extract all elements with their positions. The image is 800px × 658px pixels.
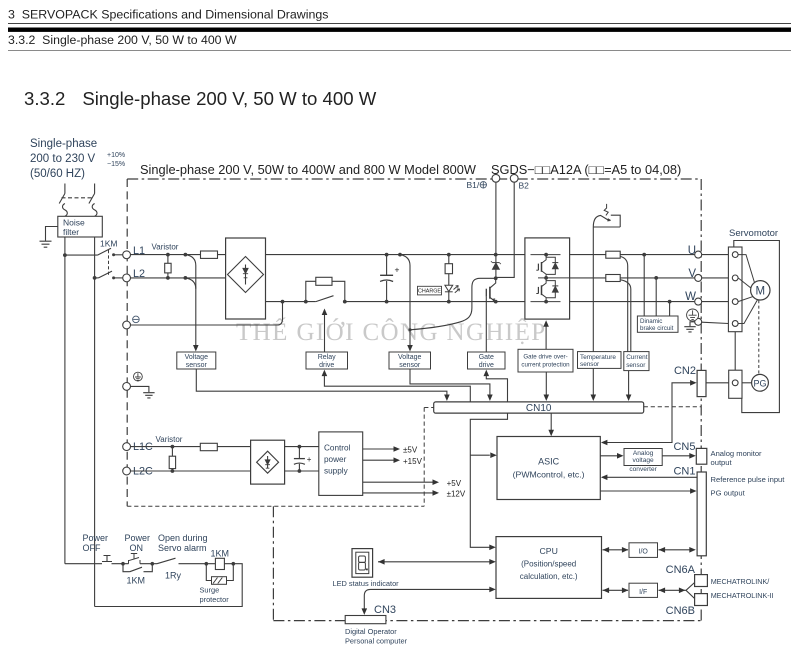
node varistor control top <box>171 445 175 449</box>
node module mid <box>544 276 548 280</box>
wire IO to CN1 <box>659 549 695 551</box>
wire ASIC to AVC <box>600 455 618 457</box>
current sense element U <box>606 251 620 258</box>
label analog monitor output <box>711 449 763 467</box>
wire input line L <box>64 184 66 194</box>
wire DC sense down <box>400 255 410 347</box>
arrow into CN3 <box>362 608 368 615</box>
svg-text:CN3: CN3 <box>374 604 396 616</box>
IO box <box>629 543 658 558</box>
shaft link dashed <box>758 300 760 374</box>
node varistor bottom <box>166 276 170 280</box>
arrow into voltage sensor 1 <box>193 345 199 352</box>
header thick bar <box>8 28 791 32</box>
terminal L2C <box>123 467 131 475</box>
wire input line N <box>94 184 96 194</box>
svg-text:L2C: L2C <box>133 466 153 478</box>
board boundary horizontal <box>127 505 424 507</box>
arrow into LED <box>378 559 385 565</box>
label B1 <box>467 180 480 190</box>
wire motor phase 2 <box>738 278 751 288</box>
breaker mechanical link <box>62 197 93 199</box>
node L1 feed <box>63 253 67 257</box>
transistor brake IGBT <box>486 278 495 352</box>
svg-text:I/F: I/F <box>639 589 647 596</box>
svg-text:Varistor: Varistor <box>152 243 179 252</box>
node L1 contact <box>112 253 115 256</box>
contact 1KM L2 <box>95 271 123 278</box>
svg-text:1Ry: 1Ry <box>165 571 182 581</box>
pushbutton power on <box>129 554 141 564</box>
wire V to connector <box>702 277 729 279</box>
varistor control <box>169 447 175 471</box>
svg-text:Voltage: Voltage <box>398 354 421 361</box>
wire supply out 4 <box>363 492 434 494</box>
motor M <box>751 281 770 300</box>
contact 1KM holding <box>123 564 152 572</box>
capacitor control <box>294 447 305 471</box>
wire CPU to IF <box>603 589 629 591</box>
svg-text:drive: drive <box>319 362 334 369</box>
node control cap top <box>298 445 302 449</box>
wire PG output <box>600 490 691 492</box>
wire supply out 2 <box>363 459 395 461</box>
label minus symbol <box>133 316 140 323</box>
wire sequence main <box>65 564 242 607</box>
svg-text:CN6B: CN6B <box>666 605 695 617</box>
terminal W <box>695 298 702 305</box>
svg-text:Single-phase: Single-phase <box>30 138 97 150</box>
label surge protector <box>200 586 230 605</box>
ground symbol filter <box>40 241 52 247</box>
current sense element V <box>606 275 620 282</box>
svg-text:+: + <box>307 455 312 464</box>
wire sense L1 down <box>185 255 195 347</box>
wire PG link <box>742 382 752 384</box>
arrow IF into CPU <box>603 588 610 594</box>
wire L2 line <box>131 277 226 279</box>
IGBT module box <box>525 238 570 319</box>
svg-text:Gate drive over-: Gate drive over- <box>523 353 567 360</box>
wire DC minus bus right <box>345 301 525 303</box>
wire control dc bottom <box>285 470 319 472</box>
connector CN6A <box>695 575 708 587</box>
current sensor box <box>624 352 649 371</box>
wire U to connector <box>702 254 729 256</box>
arrow IO into CPU <box>603 547 610 553</box>
contact 1KM link <box>108 250 110 276</box>
label digital operator <box>345 627 408 645</box>
node DB W <box>668 300 672 304</box>
terminal B1 <box>492 174 500 182</box>
contact 1KM L1 <box>65 248 123 255</box>
wire LED to CPU <box>378 561 490 563</box>
contact inrush bypass <box>316 296 334 302</box>
voltage sensor 1 box <box>177 352 216 369</box>
svg-text:Single-phase 200 V, 50W to 400: Single-phase 200 V, 50W to 400W and 800 … <box>140 162 681 177</box>
svg-text:output: output <box>711 458 733 467</box>
connector CN3 <box>345 616 386 624</box>
wire DC minus terminal <box>131 302 283 325</box>
svg-text:sensor: sensor <box>580 361 600 368</box>
servopack border lower left <box>272 506 274 620</box>
node sense L1 <box>184 253 188 257</box>
svg-text:3.3.2 Single-phase 200 V, 50: 3.3.2 Single-phase 200 V, 50 W to 400 W <box>8 33 237 47</box>
connector CN6B <box>695 594 708 606</box>
svg-text:±12V: ±12V <box>447 490 466 499</box>
servopack border right <box>700 179 702 621</box>
svg-text:Current: Current <box>626 354 648 361</box>
svg-text:CN10: CN10 <box>526 403 552 414</box>
ground symbol left mid <box>143 393 154 398</box>
node charge bottom <box>447 300 451 304</box>
rectifier bridge control <box>251 440 285 484</box>
wire DB tap W <box>669 302 671 316</box>
wire ASIC to CN2 <box>602 383 691 443</box>
wire W line <box>570 301 695 303</box>
thermal protector <box>593 204 620 396</box>
svg-text:Dinamic: Dinamic <box>640 318 662 325</box>
svg-text:CN5: CN5 <box>673 441 695 453</box>
servopack border left <box>126 179 128 506</box>
svg-text:Analog: Analog <box>633 450 654 457</box>
wire supply out 3 <box>363 481 434 483</box>
arrow supply out 3 <box>433 479 440 485</box>
arrow reference pulse into ASIC <box>601 475 608 481</box>
surge protector element <box>212 577 227 585</box>
node L2 feed <box>93 276 97 280</box>
svg-text:Reference pulse input: Reference pulse input <box>711 475 786 484</box>
svg-text:LED status indicator: LED status indicator <box>333 579 400 588</box>
label Power ON <box>125 533 151 553</box>
breaker pole left <box>59 194 67 217</box>
node varistor control bottom <box>171 469 175 473</box>
analog voltage converter box <box>624 449 662 473</box>
wire W to connector <box>702 301 729 303</box>
arrow into CN5 <box>689 453 696 459</box>
arrow PG output into CN1 <box>690 488 697 494</box>
wire V line <box>570 277 695 279</box>
node module bottom <box>544 300 548 304</box>
arrow fork right <box>679 588 686 594</box>
node varistor top <box>166 253 170 257</box>
terminal L1 <box>123 251 131 259</box>
input voltage label <box>30 138 97 180</box>
CN10 dashed link right <box>644 406 702 408</box>
arrow into AVC <box>617 453 624 459</box>
node seq b <box>151 562 155 566</box>
node bypass right <box>343 300 347 304</box>
node module top <box>544 253 548 257</box>
connector CN2 <box>697 370 706 396</box>
wire supply out 1 <box>363 448 395 450</box>
svg-text:brake circuit: brake circuit <box>640 325 674 332</box>
wire DB tap U <box>643 255 645 316</box>
wire CN10 to logic feed <box>470 413 507 547</box>
svg-text:converter: converter <box>629 466 657 473</box>
svg-text:Servo alarm: Servo alarm <box>158 543 207 553</box>
svg-text:Noise: Noise <box>63 218 85 228</box>
servomotor enclosure <box>734 241 780 413</box>
breaker pole right <box>89 194 97 217</box>
PG connector strip <box>729 370 742 398</box>
node coil right <box>232 562 236 566</box>
svg-text:CN6A: CN6A <box>666 564 696 576</box>
terminal U <box>695 251 702 258</box>
arrow into CN1 bottom <box>689 547 696 553</box>
wire DB tap V <box>655 278 657 316</box>
wire current sense V down <box>621 280 631 352</box>
surge protector branch <box>206 564 233 581</box>
resistor charge branch <box>445 255 452 302</box>
svg-text:PG output: PG output <box>711 488 746 497</box>
wire feed ASIC branch <box>470 454 490 456</box>
svg-text:1KM: 1KM <box>127 576 146 586</box>
arrow into IO right <box>659 547 666 553</box>
diode brake freewheel <box>491 261 501 269</box>
temperature sensor box <box>578 352 622 369</box>
wire L1C line <box>131 446 251 448</box>
servopack border bottom <box>273 620 701 622</box>
node brake emitter <box>494 300 498 304</box>
svg-text:sensor: sensor <box>186 362 208 369</box>
wire AVC to CN5 <box>662 455 690 457</box>
capacitor C1 <box>380 255 393 302</box>
node DC minus rise <box>281 300 285 304</box>
wire DC minus bus left <box>266 301 316 303</box>
terminal L1C <box>123 443 131 451</box>
resistor inrush stubs <box>306 281 345 301</box>
arrow into CN2 <box>690 380 697 386</box>
svg-text:power: power <box>324 455 347 464</box>
arrow VS2 CN10 <box>487 395 493 402</box>
svg-text:Relay: Relay <box>318 354 336 361</box>
wire ground terminal <box>131 386 149 392</box>
svg-text:ON: ON <box>130 543 144 553</box>
svg-text:sensor: sensor <box>626 362 646 369</box>
wire CN2 to PG strip <box>706 382 729 384</box>
node B1 bus <box>494 253 498 257</box>
LED status indicator <box>352 549 373 578</box>
board boundary to CN10 <box>424 407 434 409</box>
coil 1KM <box>215 558 224 569</box>
arrow relay actuation <box>324 314 326 353</box>
svg-text:CPU: CPU <box>540 546 558 556</box>
node bypass left <box>304 300 308 304</box>
wire connector link <box>734 332 736 371</box>
svg-text:(PWMcontrol, etc.): (PWMcontrol, etc.) <box>513 470 585 480</box>
svg-text:1KM: 1KM <box>100 239 117 249</box>
svg-text:B1/: B1/ <box>467 180 480 190</box>
svg-text:PG: PG <box>753 379 766 389</box>
node cap top <box>385 253 389 257</box>
wire B2 drop <box>497 182 514 277</box>
svg-text:CN2: CN2 <box>674 365 696 377</box>
voltage sensor 2 box <box>389 352 431 369</box>
arrow VS1 CN10 <box>444 395 450 402</box>
wire relay drive from CN10 <box>324 375 470 402</box>
rectifier bridge main <box>226 238 266 319</box>
wire brake node sense <box>410 278 496 330</box>
varistor V1 <box>165 255 171 278</box>
svg-text:±5V: ±5V <box>403 446 418 455</box>
arrow into IO left <box>622 547 629 553</box>
wire left rail <box>64 237 66 564</box>
svg-text:MECHATROLINK-II: MECHATROLINK-II <box>711 591 774 600</box>
svg-text:supply: supply <box>324 467 349 476</box>
noise filter <box>58 216 103 237</box>
wire CN10 to ASIC center <box>550 413 552 432</box>
wire motor phase 3 <box>738 296 754 301</box>
wire CN3 to CPU <box>364 589 490 610</box>
svg-text:ASIC: ASIC <box>538 457 560 467</box>
svg-text:+5V: +5V <box>447 479 462 488</box>
PE symbol motor <box>687 309 699 321</box>
node DB V <box>654 276 658 280</box>
svg-text:Personal computer: Personal computer <box>345 637 408 646</box>
svg-text:Servomotor: Servomotor <box>729 228 778 239</box>
wire overcurrent to CN10 <box>545 372 547 396</box>
wire gate drive from CN10 <box>486 375 507 402</box>
label B1 plus symbol <box>480 182 486 188</box>
label Power OFF <box>83 533 109 553</box>
wire VS2 to CN10 <box>410 369 490 396</box>
svg-text:Voltage: Voltage <box>185 354 208 361</box>
arrow LED into CPU <box>489 559 496 565</box>
wire reference pulse <box>602 476 697 478</box>
svg-text:current protection: current protection <box>521 361 570 368</box>
motor connector strip <box>728 247 742 332</box>
arrow into voltage sensor 2 <box>407 345 413 352</box>
wire DC plus bus <box>266 254 525 256</box>
terminal ground left <box>123 383 131 391</box>
connector CN5 <box>696 448 707 464</box>
wire PE to ground <box>690 322 695 327</box>
arrow overcurrent CN10 <box>544 395 550 402</box>
node brake collector <box>494 276 498 280</box>
terminal L2 <box>123 274 131 282</box>
fuse L1 <box>201 251 218 258</box>
wire VS1 to CN10 <box>196 369 447 396</box>
svg-text:200 to 230 V: 200 to 230 V <box>30 153 96 165</box>
resistor inrush <box>316 277 332 285</box>
pushbutton power off <box>102 556 112 562</box>
svg-text:+15V: +15V <box>403 457 423 466</box>
arrow feed ASIC <box>490 452 497 458</box>
svg-text:3.3.2Single-phase 200 V, 50 W: 3.3.2Single-phase 200 V, 50 W to 400 W <box>24 88 377 109</box>
arrow CN10 ASIC <box>548 430 554 437</box>
svg-text:Temperature: Temperature <box>580 354 616 361</box>
encoder PG <box>752 374 769 391</box>
svg-text:Varistor: Varistor <box>156 435 183 444</box>
noise filter ground wire <box>46 227 58 241</box>
fuse control <box>200 443 217 450</box>
terminal DC minus <box>123 321 131 329</box>
IGBT module internals <box>531 255 570 302</box>
ground symbol motor <box>684 327 695 332</box>
servopack border top <box>127 178 701 180</box>
LED charge lamp <box>445 285 460 293</box>
IF box <box>629 583 658 597</box>
wire motor PE <box>738 300 757 324</box>
arrow into relay drive <box>322 370 328 377</box>
PE symbol left <box>134 372 143 381</box>
wire CPU to IO <box>603 549 629 551</box>
node DB U <box>642 253 646 257</box>
wire L1 line <box>131 254 226 256</box>
wire PE to connector <box>702 322 729 323</box>
arrow thermal to CN10 <box>591 395 597 402</box>
svg-text:+: + <box>395 265 400 275</box>
terminal B2 <box>510 174 518 182</box>
header gray rule <box>8 50 791 52</box>
contact 1Ry <box>157 558 176 564</box>
arrow current sensor to CN10 <box>626 395 632 402</box>
node brake sense join <box>408 328 411 331</box>
wire module gate feed <box>545 325 547 349</box>
control power supply box <box>319 432 363 496</box>
wire current sensor to CN10 <box>628 371 630 397</box>
arrow supply out 4 <box>433 490 440 496</box>
wire IF to CN6 fork <box>659 583 695 599</box>
svg-text:Power: Power <box>83 533 109 543</box>
wire right rail <box>94 237 96 607</box>
tolerance label <box>107 152 125 168</box>
wire current sense U down <box>621 257 628 352</box>
CN10 bus <box>434 402 644 414</box>
terminal V <box>695 274 702 281</box>
node sense L2 <box>184 276 188 280</box>
node charge top <box>447 253 451 257</box>
CPU box <box>496 537 602 599</box>
arrow into IF right <box>659 588 666 594</box>
svg-text:Digital Operator: Digital Operator <box>345 627 397 636</box>
svg-text:M: M <box>756 286 766 298</box>
svg-text:CHARGE: CHARGE <box>418 289 441 295</box>
node coil left <box>205 562 209 566</box>
arrow feed CPU <box>489 545 496 551</box>
svg-text:Control: Control <box>324 444 351 453</box>
node L2 contact <box>112 276 115 279</box>
wire U line <box>570 254 695 256</box>
svg-text:B2: B2 <box>519 181 530 191</box>
board boundary vertical <box>423 408 425 507</box>
wire breaker to filter left <box>64 215 66 217</box>
svg-text:filter: filter <box>63 227 79 237</box>
svg-text:I/O: I/O <box>639 549 649 556</box>
arrow CN3 into CPU <box>489 587 496 593</box>
ASIC box <box>497 437 600 500</box>
svg-text:3 SERVOPACK Specifications an: 3 SERVOPACK Specifications and Dimension… <box>8 8 328 22</box>
node seq a <box>121 562 125 566</box>
svg-text:Surge: Surge <box>200 586 220 595</box>
node DC sense <box>398 253 402 257</box>
wire motor phase 1 <box>738 255 754 283</box>
dynamic brake circuit box <box>637 316 678 332</box>
arrow supply out 1 <box>394 446 401 452</box>
CHARGE label box <box>418 286 442 295</box>
gate drive box <box>468 352 506 369</box>
header thin rule <box>8 23 791 25</box>
arrow into ASIC from CN2 <box>601 440 608 446</box>
svg-text:(50/60 HZ): (50/60 HZ) <box>30 168 85 180</box>
svg-text:voltage: voltage <box>632 457 654 464</box>
node cap bottom <box>385 300 389 304</box>
arrow supply out 2 <box>394 457 401 463</box>
label Open during Servo alarm <box>158 533 208 553</box>
svg-text:CN1: CN1 <box>673 465 695 477</box>
svg-text:−15%: −15% <box>107 161 125 168</box>
